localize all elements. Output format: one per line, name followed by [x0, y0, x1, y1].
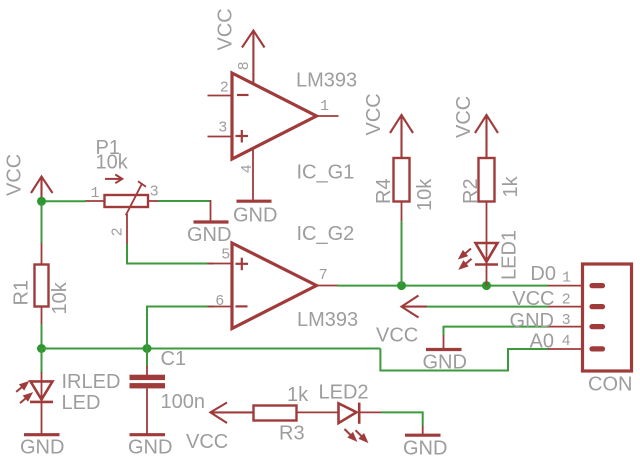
- svg-text:VCC: VCC: [512, 288, 554, 310]
- resistor R1: [35, 265, 49, 307]
- CON pin 1 contact: [592, 283, 603, 288]
- plus sign pin 3: [236, 130, 249, 143]
- svg-text:VCC: VCC: [186, 431, 228, 453]
- R1 top pin stub: [41, 243, 43, 265]
- svg-text:R1: R1: [11, 280, 33, 306]
- supply symbol VCC (R2): [475, 115, 498, 158]
- svg-text:1k: 1k: [287, 384, 309, 406]
- P1 adjust arrow: [105, 175, 122, 184]
- CON pin 3 contact: [592, 324, 603, 329]
- svg-text:GND: GND: [233, 205, 277, 227]
- P1 pin 3 stub: [148, 200, 160, 202]
- CON pin 3 line: [548, 326, 583, 328]
- ground stub (P1 pin3): [210, 200, 212, 221]
- potentiometer P1: [105, 195, 149, 207]
- pin 4 line (IC_G1 gnd): [252, 148, 254, 200]
- ground stub (CON pin3 net): [443, 335, 445, 348]
- svg-text:LED1: LED1: [499, 230, 521, 280]
- svg-text:VCC: VCC: [4, 154, 26, 196]
- svg-text:IC_G1: IC_G1: [297, 162, 355, 184]
- svg-text:1: 1: [320, 98, 329, 115]
- svg-text:5: 5: [222, 246, 230, 263]
- wire GND net to CON pin3: [444, 327, 549, 336]
- wire A0 net: main node to CON pin4: [380, 349, 548, 371]
- svg-text:LED: LED: [62, 392, 101, 414]
- LED2 pin stub right: [359, 411, 381, 413]
- IRLED light arrows: [16, 383, 31, 404]
- wire main horizontal node line: [42, 348, 381, 350]
- svg-text:2: 2: [109, 228, 126, 236]
- svg-text:7: 7: [319, 266, 327, 283]
- wire LED2 to GND: [381, 412, 423, 425]
- CON pin 1 line: [548, 285, 583, 287]
- svg-text:GND: GND: [403, 438, 447, 460]
- P1 wiper diagonal: [126, 183, 142, 215]
- svg-text:3: 3: [150, 183, 158, 200]
- wire VCC net to CON pin2: [427, 306, 549, 308]
- svg-text:LM393: LM393: [297, 309, 358, 331]
- supply symbol VCC (bottom, R3): [210, 403, 253, 424]
- svg-text:LED2: LED2: [319, 382, 369, 404]
- diode LED2: [339, 403, 360, 424]
- supply symbol VCC (top, to IC1 pin 8): [242, 31, 265, 85]
- supply symbol VCC (R4): [390, 115, 413, 158]
- supply symbol VCC (horizontal, to CON pin2): [402, 296, 428, 318]
- svg-text:R4: R4: [373, 178, 395, 204]
- svg-text:4: 4: [238, 165, 255, 173]
- R1 bottom pin stub: [41, 307, 43, 325]
- wire R1 to main node: [41, 324, 43, 349]
- pin 6 line (IC_G2 inverting input): [208, 306, 233, 308]
- svg-text:GND: GND: [20, 437, 64, 459]
- wire node up to IC_G2 pin6: [147, 307, 214, 349]
- R2 to LED1 link: [486, 202, 488, 244]
- connector CON: [583, 264, 632, 371]
- ground symbol (IRLED): [24, 433, 60, 436]
- svg-text:1: 1: [562, 270, 571, 287]
- wire VCC junction to P1 pin1: [42, 200, 87, 202]
- resistor R3: [254, 406, 297, 421]
- svg-text:VCC: VCC: [376, 325, 418, 347]
- svg-text:GND: GND: [128, 437, 172, 459]
- svg-text:D0: D0: [530, 263, 556, 285]
- wire VCC junction down to R1: [41, 203, 43, 243]
- svg-text:GND: GND: [510, 310, 554, 332]
- svg-text:10k: 10k: [414, 178, 436, 211]
- ground symbol (CON pin3 net): [426, 348, 462, 351]
- svg-text:C1: C1: [161, 348, 187, 370]
- ground symbol (IC_G1 pin 4): [237, 200, 272, 203]
- LED1 light arrows: [460, 249, 472, 269]
- pin 3 line (IC_G1 non-inverting input): [208, 136, 233, 138]
- svg-text:10k: 10k: [49, 281, 71, 314]
- CON pin 2 contact: [592, 304, 603, 309]
- resistor R2: [479, 158, 495, 202]
- svg-text:3: 3: [562, 311, 570, 328]
- wire P1 pin3 to GND: [158, 200, 211, 202]
- wire D0 net: IC_G2 output to CON pin1: [337, 285, 549, 287]
- ground symbol (LED2): [405, 434, 441, 437]
- svg-text:100n: 100n: [161, 391, 206, 413]
- R4 bottom pin stub: [401, 202, 403, 222]
- svg-text:3: 3: [219, 119, 227, 136]
- capacitor C1: [146, 366, 148, 375]
- svg-text:LM393: LM393: [296, 70, 357, 92]
- P1 wiper pin stub: [126, 214, 128, 246]
- supply symbol VCC (left): [31, 177, 53, 202]
- wire R4 to D0 net: [401, 221, 403, 285]
- resistor R4: [394, 158, 410, 202]
- op-amp U1 IC_G1 LM393: [232, 73, 317, 159]
- diode IRLED: [41, 372, 43, 435]
- svg-text:CON: CON: [588, 374, 632, 396]
- svg-text:2: 2: [220, 79, 228, 96]
- wire R3 to LED2: [297, 411, 339, 413]
- P1 pin 1 stub: [85, 200, 105, 202]
- svg-text:1k: 1k: [500, 175, 522, 197]
- CON pin 2 line: [548, 306, 583, 308]
- CON pin 4 contact: [592, 346, 603, 351]
- LED2 light arrows: [345, 429, 367, 441]
- junction node C1: [143, 344, 152, 353]
- diode LED1: [486, 243, 488, 286]
- svg-text:VCC: VCC: [363, 93, 385, 135]
- pin 7 line (IC_G2 output): [317, 285, 339, 287]
- svg-text:IC_G2: IC_G2: [297, 223, 355, 245]
- CON pin 4 line: [548, 348, 583, 350]
- svg-text:1: 1: [91, 185, 100, 202]
- plus sign pin 5: [236, 258, 249, 271]
- svg-text:VCC: VCC: [453, 96, 475, 138]
- junction node LED1: [482, 281, 491, 290]
- junction node left: [37, 344, 46, 353]
- svg-text:VCC: VCC: [215, 8, 237, 50]
- svg-text:6: 6: [216, 292, 224, 309]
- svg-text:2: 2: [562, 291, 570, 308]
- P1 wiper tick: [138, 181, 146, 186]
- op-amp U2 IC_G2 LM393: [232, 243, 317, 329]
- svg-text:R3: R3: [279, 423, 305, 445]
- ground stub (LED2): [422, 426, 424, 435]
- wire P1 wiper to IC_G2 pin5: [127, 244, 214, 264]
- junction node R4: [397, 281, 406, 290]
- svg-text:A0: A0: [530, 331, 554, 353]
- ground symbol (C1): [130, 433, 166, 436]
- svg-text:IRLED: IRLED: [62, 371, 121, 393]
- wire main node down to IRLED: [41, 349, 43, 374]
- pin 5 line (IC_G2 non-inverting input): [208, 263, 233, 265]
- svg-text:R2: R2: [460, 178, 482, 204]
- svg-text:8: 8: [235, 62, 252, 70]
- wire node down to C1: [146, 349, 148, 368]
- pin 2 line (IC_G1 inverting input): [208, 95, 233, 97]
- junction node VCC-left: [37, 197, 46, 206]
- ground symbol (P1 pin3): [194, 220, 229, 223]
- minus sign pin 2: [237, 94, 249, 96]
- svg-text:4: 4: [562, 332, 570, 349]
- minus sign pin 6: [236, 305, 248, 307]
- pin 1 line (IC_G1 output): [317, 115, 339, 117]
- svg-text:10k: 10k: [96, 152, 129, 174]
- svg-text:GND: GND: [187, 224, 231, 246]
